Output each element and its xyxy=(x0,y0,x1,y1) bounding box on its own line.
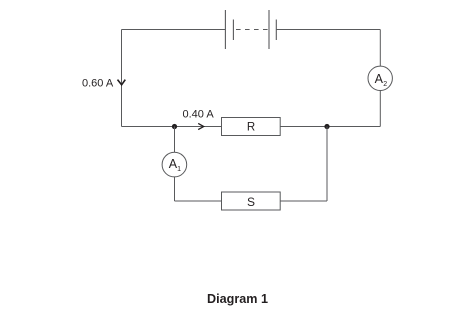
wire: left vertical xyxy=(121,30,123,127)
wire: right vertical lower (A2 to middle wire) xyxy=(379,90,381,126)
ammeter A1 xyxy=(162,152,187,177)
current arrow down 0.60 A xyxy=(118,80,126,85)
wire: right vertical of bottom loop xyxy=(326,127,328,202)
svg-text:0.60 A: 0.60 A xyxy=(82,78,114,90)
wire: right vertical upper (to ammeter A2) xyxy=(379,30,381,67)
wire: middle horizontal right segment xyxy=(280,126,380,128)
wire: bottom horizontal left segment xyxy=(175,200,222,202)
wire: top-left horizontal xyxy=(122,29,226,31)
wire: ammeter A1 down to bottom wire xyxy=(174,177,176,201)
svg-text:S: S xyxy=(247,195,255,209)
svg-text:2: 2 xyxy=(383,81,387,88)
wire: middle horizontal left segment xyxy=(122,126,222,128)
wire: junction down to ammeter A1 xyxy=(174,127,176,153)
node: right junction xyxy=(324,124,329,129)
resistor R xyxy=(222,118,281,136)
svg-text:0.40 A: 0.40 A xyxy=(183,108,215,120)
node: left junction xyxy=(172,124,177,129)
resistor S xyxy=(222,192,281,210)
battery cell 1 long plate xyxy=(224,10,226,49)
svg-text:1: 1 xyxy=(177,166,181,173)
battery dashed link xyxy=(236,29,269,31)
wire: bottom horizontal right segment xyxy=(280,200,327,202)
current arrow right 0.40 A xyxy=(198,123,204,129)
svg-text:Diagram 1: Diagram 1 xyxy=(207,292,268,306)
svg-text:R: R xyxy=(247,122,255,134)
ammeter A2 xyxy=(368,66,392,90)
battery cell 2 long plate xyxy=(268,10,270,49)
battery cell 2 short plate xyxy=(275,20,277,41)
battery cell 1 short plate xyxy=(232,20,234,41)
wire: top-right horizontal xyxy=(276,29,380,31)
